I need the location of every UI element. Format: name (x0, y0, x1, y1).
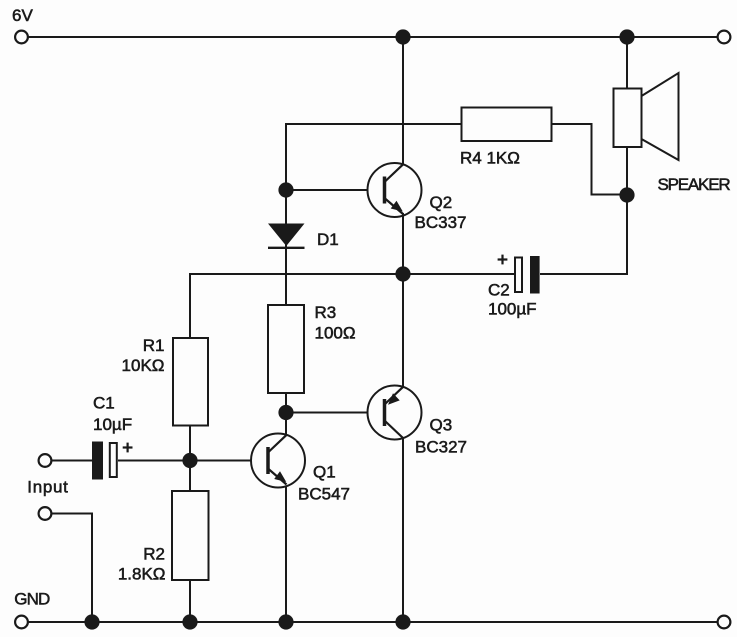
svg-text:BC547: BC547 (298, 485, 350, 504)
svg-text:10KΩ: 10KΩ (122, 356, 165, 375)
svg-text:100Ω: 100Ω (315, 324, 356, 343)
svg-text:Q2: Q2 (430, 193, 453, 212)
svg-text:BC337: BC337 (415, 213, 467, 232)
svg-text:Q1: Q1 (313, 463, 336, 482)
svg-text:6V: 6V (12, 6, 33, 25)
svg-text:GND: GND (14, 589, 50, 608)
svg-text:1.8KΩ: 1.8KΩ (118, 564, 166, 583)
svg-text:D1: D1 (317, 230, 339, 249)
svg-text:Q3: Q3 (430, 415, 453, 434)
svg-text:C2: C2 (488, 281, 510, 300)
svg-text:100µF: 100µF (488, 300, 537, 319)
svg-text:R1: R1 (143, 336, 165, 355)
svg-text:R4 1KΩ: R4 1KΩ (460, 149, 520, 168)
svg-text:10µF: 10µF (93, 415, 132, 434)
svg-text:SPEAKER: SPEAKER (658, 175, 731, 194)
svg-text:R3: R3 (315, 303, 337, 322)
svg-text:BC327: BC327 (415, 437, 467, 456)
svg-text:C1: C1 (93, 393, 115, 412)
svg-text:Input: Input (27, 477, 68, 496)
svg-text:R2: R2 (143, 545, 165, 564)
